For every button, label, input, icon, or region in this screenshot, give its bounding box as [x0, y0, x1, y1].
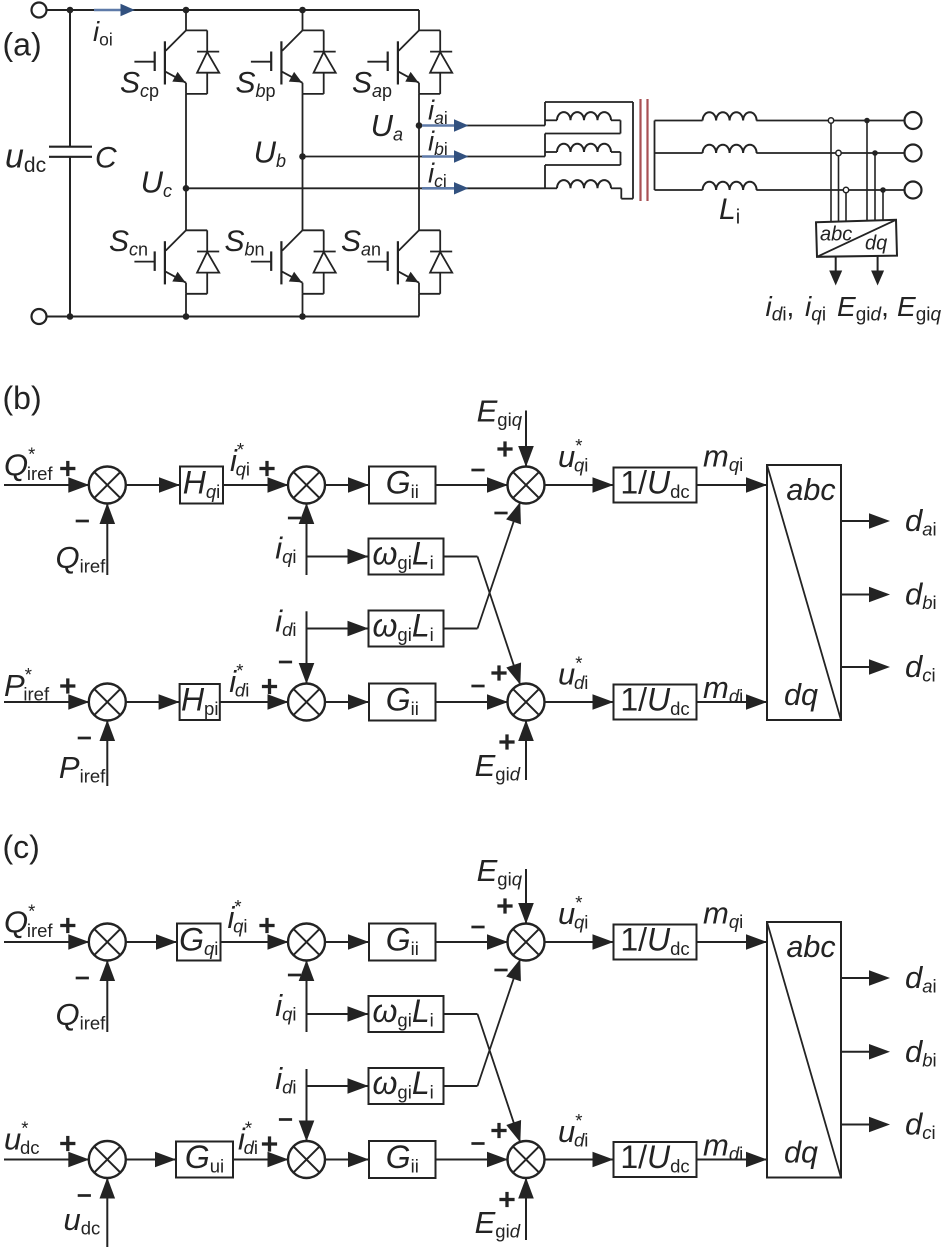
node: junction bottom rail / capacitor branch: [67, 313, 74, 320]
block abc/dq modulation: [767, 922, 841, 1178]
wire: leg 2 collector lead upper: [302, 10, 304, 30]
wire: sum to G_qi: [125, 941, 177, 943]
block G_ii (bottom): [369, 684, 436, 721]
svg-text:dq: dq: [784, 1136, 818, 1170]
svg-text:(a): (a): [3, 27, 42, 63]
wire: H_pi to summing junction: [220, 701, 289, 703]
block 1/U_dc (bottom): [614, 1142, 697, 1177]
block H_pi: [180, 684, 220, 720]
wire: G_ii to summing junction (bottom): [436, 1159, 509, 1161]
svg-text:dq: dq: [784, 678, 818, 712]
svg-text:abc: abc: [786, 930, 835, 964]
block G_qi: [177, 924, 221, 961]
wire: sum to H_pi: [125, 701, 179, 703]
summing junction c2: [288, 924, 325, 961]
transformer T1 primary winding, phase a branch: [544, 102, 546, 126]
arrow i_bi (blue): [422, 155, 456, 158]
wire: d coupling cross line to upper sum: [444, 628, 478, 630]
wire: i_qi input stub: [306, 503, 308, 575]
arrow: dq voltages output: [877, 255, 879, 272]
transistor S_an (IGBT with antiparallel diode): [367, 230, 452, 293]
wire: E_gid input: [525, 1178, 527, 1241]
wire: G_ii to summing junction (top): [436, 484, 509, 486]
terminal: DC negative input: [32, 309, 47, 324]
wire: bottom reference input: [4, 1159, 89, 1161]
wire: bottom reference input: [4, 701, 89, 703]
transformer T1 primary bottom link to node a: [620, 188, 622, 198]
arrow i_ci (blue): [422, 187, 456, 190]
wire: d coupling cross line to upper sum: [444, 1085, 478, 1087]
block omega_gi L_i (q coupling): [369, 539, 444, 575]
block 1/U_dc (top): [614, 468, 697, 503]
block G_ii (top): [369, 467, 436, 504]
wire: leg 3 midpoint connection: [418, 94, 420, 230]
wire: m_qi to abc/dq block: [697, 484, 768, 486]
wire: m_di to abc/dq block: [697, 1159, 768, 1161]
summing junction c5: [288, 1141, 325, 1178]
capacitor C: [49, 146, 92, 148]
node U_a: [416, 122, 423, 129]
summing junction b2: [288, 467, 325, 504]
wire: top feedback input: [106, 960, 108, 1032]
wire: voltage measurement phase b: [838, 153, 840, 221]
svg-text:C: C: [95, 142, 117, 175]
wire: u*_qi output: [544, 941, 614, 943]
node: junction top rail / capacitor branch: [67, 7, 74, 14]
transformer T1 primary coil 1: [545, 119, 557, 121]
terminal: grid phase a: [905, 112, 922, 129]
wire: top DC rail: [47, 9, 420, 11]
summing junction c4: [89, 1141, 126, 1178]
wire: voltage measurement phase c: [845, 190, 847, 221]
wire: bottom DC rail: [47, 316, 420, 318]
arrow output d_bi: [841, 1051, 871, 1053]
transistor S_bn (IGBT with antiparallel diode): [251, 230, 336, 293]
wire: E_giq input: [525, 411, 527, 468]
wire: H_qi to summing junction: [223, 484, 289, 486]
wire: G_qi to summing junction: [221, 941, 289, 943]
block H_qi: [180, 467, 223, 504]
wire: sum to H_qi: [125, 484, 180, 486]
wire: sum to G_ii (top): [325, 484, 370, 486]
wire: leg 1 collector lead upper: [185, 10, 187, 30]
wire: bottom feedback input: [106, 720, 108, 786]
wire: leg 3 emitter lead lower: [418, 294, 420, 317]
wire: leg 1 emitter lead lower: [185, 294, 187, 317]
arrow: dq currents output: [835, 257, 837, 273]
wire: current measurement phase b: [874, 153, 876, 221]
wire: i_qi input stub: [306, 960, 308, 1032]
summing junction b6: [508, 684, 545, 721]
block omega_gi L_i (q coupling): [369, 996, 444, 1032]
node: current tap phase c: [880, 187, 886, 193]
wire: u*_di output: [544, 701, 614, 703]
inductor L_i phase b: [655, 152, 703, 154]
wire: voltage measurement phase a: [830, 121, 832, 222]
wire: current measurement phase a: [866, 121, 868, 222]
wire: E_giq input: [525, 869, 527, 924]
wire: current measurement phase c: [882, 190, 884, 221]
arrow output d_ai: [841, 520, 871, 522]
svg-text:abc: abc: [820, 224, 852, 246]
wire: sum to G_ii (bottom): [325, 1159, 370, 1161]
transformer T1 primary coil 3: [545, 187, 557, 189]
terminal: grid phase b: [905, 145, 922, 162]
node: top rail / leg 2: [299, 7, 306, 14]
svg-text:(b): (b): [3, 380, 42, 416]
transformer T1 primary node c link: [620, 152, 622, 165]
node: bottom rail / leg 1: [183, 313, 190, 320]
wire: capacitor branch lower: [69, 157, 71, 317]
wire: phase b output: [303, 156, 546, 158]
wire: i_di branch to coupling block: [307, 1085, 369, 1087]
block G_ii (bottom): [369, 1141, 436, 1178]
block omega_gi L_i (d coupling): [369, 611, 444, 647]
wire: q coupling cross line to lower sum: [444, 556, 478, 558]
svg-text:(c): (c): [3, 829, 40, 865]
inductor L_i phase c: [655, 189, 703, 191]
node U_b: [299, 153, 306, 160]
block abc/dq modulation: [767, 465, 841, 720]
transistor S_cp (IGBT with antiparallel diode): [134, 30, 219, 94]
arrow i_ai (blue): [422, 124, 456, 127]
wire: G_ii to summing junction (top): [436, 941, 509, 943]
wire: sum to G_ii (top): [325, 941, 370, 943]
transformer T1 primary coil 2: [545, 151, 557, 153]
wire: i_di input: [306, 611, 308, 684]
terminal: DC positive input: [32, 3, 47, 18]
wire: i_di branch to coupling block: [307, 628, 369, 630]
block G_ui: [176, 1142, 233, 1178]
inductor L_i phase a: [655, 120, 703, 122]
node U_c: [183, 185, 190, 192]
wire: top reference input: [4, 484, 89, 486]
wire: G_ii to summing junction (bottom): [436, 701, 509, 703]
wire: bottom feedback input: [106, 1178, 108, 1247]
wire: top reference input: [4, 941, 89, 943]
summing junction b4: [89, 684, 126, 721]
wire: E_gid input: [525, 720, 527, 780]
transistor S_bp (IGBT with antiparallel diode): [251, 30, 336, 94]
node: current tap phase a: [864, 118, 870, 124]
wire: i_di input: [306, 1069, 308, 1142]
arrow output d_ai: [841, 977, 871, 979]
wire: m_di to abc/dq block: [697, 701, 768, 703]
wire: leg 1 midpoint connection: [185, 94, 187, 230]
wire: sum to G_ii (bottom): [325, 701, 370, 703]
summing junction b3: [508, 467, 545, 504]
block 1/U_dc (top): [614, 925, 697, 960]
terminal: grid phase c: [905, 182, 922, 199]
summing junction c3: [508, 924, 545, 961]
wire: leg 2 midpoint connection: [302, 94, 304, 230]
wire: top feedback input: [106, 503, 108, 575]
arrow output d_ci: [841, 1124, 871, 1126]
wire: G_ui to summing junction: [233, 1159, 289, 1161]
wire: i_qi branch to coupling block: [307, 1013, 369, 1015]
block G_ii (top): [369, 924, 436, 961]
transistor S_ap (IGBT with antiparallel diode): [367, 30, 452, 94]
summing junction b1: [89, 467, 126, 504]
block: abc/dq transform (measurement): [816, 220, 897, 257]
transformer T1 primary node b link: [620, 120, 622, 133]
summing junction c6: [508, 1141, 545, 1178]
wire: capacitor branch upper: [69, 10, 71, 147]
wire: u*_qi output: [544, 484, 614, 486]
transistor S_cn (IGBT with antiparallel diode): [134, 230, 219, 293]
block 1/U_dc (bottom): [614, 685, 697, 720]
summing junction c1: [89, 924, 126, 961]
wire: leg 2 emitter lead lower: [302, 294, 304, 317]
node: top rail / leg 1: [183, 7, 190, 14]
wire: sum to G_ui: [125, 1159, 176, 1161]
wire: phase a output: [419, 125, 545, 127]
block omega_gi L_i (d coupling): [369, 1068, 444, 1104]
wire: i_qi branch to coupling block: [307, 556, 369, 558]
arrow output d_ci: [841, 666, 871, 668]
wire: leg 3 collector lead upper: [418, 10, 420, 30]
wire: phase c output: [186, 187, 545, 189]
wire: m_qi to abc/dq block: [697, 941, 768, 943]
wire: u*_di output: [544, 1159, 614, 1161]
wire: q coupling cross line to lower sum: [444, 1013, 478, 1015]
arrow i_oi (blue): [94, 9, 123, 12]
node: current tap phase b: [872, 150, 878, 156]
transformer T1 core (red): [639, 99, 641, 201]
svg-text:abc: abc: [786, 473, 835, 507]
arrow output d_bi: [841, 594, 871, 596]
node: bottom rail / leg 2: [299, 313, 306, 320]
svg-text:dq: dq: [865, 233, 887, 255]
summing junction b5: [288, 684, 325, 721]
transformer T1 secondary common bar: [654, 121, 656, 191]
